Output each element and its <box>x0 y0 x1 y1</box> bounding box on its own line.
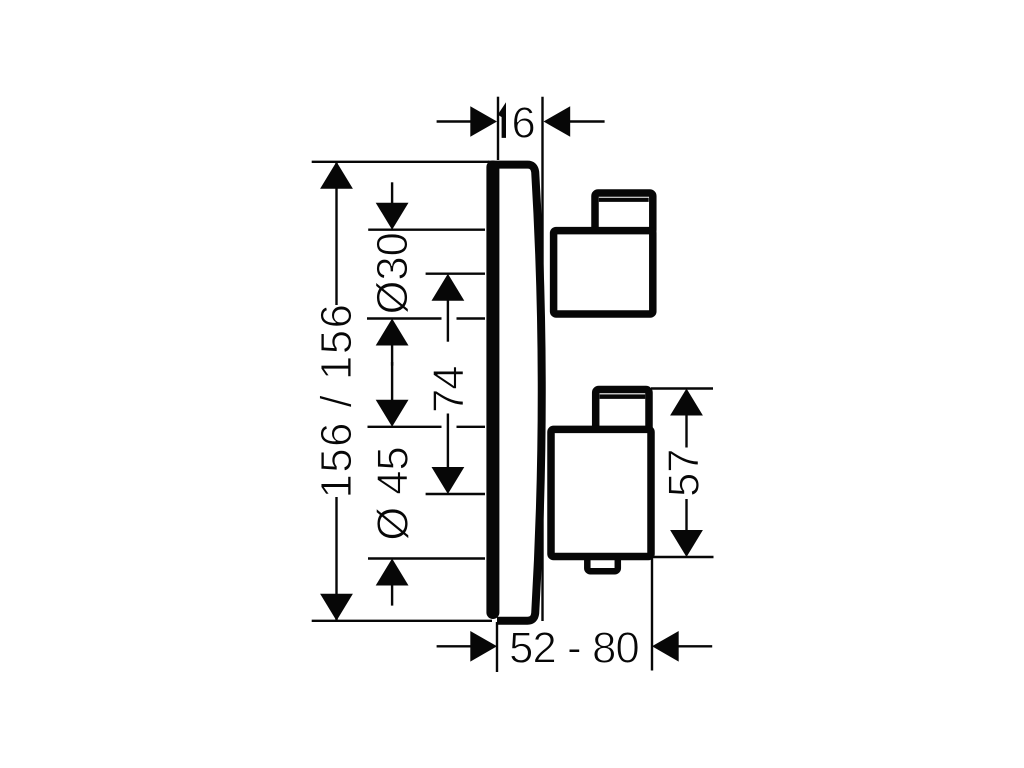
arrow 74 down <box>432 467 465 494</box>
plate face fill <box>493 165 540 621</box>
extension line 74 bottom <box>426 493 485 495</box>
dim d45 top tail <box>391 362 393 401</box>
arrow d45 down <box>376 400 409 427</box>
bottom handle cap inner line <box>600 394 646 399</box>
dim d30 bottom tail <box>391 345 393 366</box>
dim 57 lower tail <box>685 499 687 531</box>
arrow d30 up <box>376 319 409 346</box>
arrow 57 down <box>670 530 703 557</box>
bottom handle body <box>551 429 651 556</box>
dim d45 bottom tail <box>391 585 393 606</box>
extension line 74 top <box>426 273 485 275</box>
dim 52-80 right tail <box>679 645 713 647</box>
extension line d30 top <box>368 228 485 230</box>
dim 156 line upper <box>335 163 337 305</box>
bottom handle <box>551 390 651 572</box>
arrow 156 down <box>320 594 353 621</box>
svg-text:52 - 80: 52 - 80 <box>509 625 639 673</box>
arrow 74 up <box>432 274 465 301</box>
top handle cap inner line <box>599 198 649 202</box>
svg-text:74: 74 <box>426 367 474 413</box>
arrow d45 up <box>376 559 409 586</box>
arrow 16 right <box>544 106 571 137</box>
extension line 52-80 right <box>651 559 653 671</box>
svg-text:Ø30: Ø30 <box>369 232 417 314</box>
extension line 156 bottom <box>312 620 492 622</box>
extension line 16 left <box>497 97 499 160</box>
extension line d45 bottom <box>368 557 485 559</box>
plate (escutcheon side view) <box>488 165 542 621</box>
svg-text:57: 57 <box>661 449 709 497</box>
extension line 57 top <box>651 387 713 389</box>
dim 52-80 left tail <box>437 645 471 647</box>
arrow d30 down <box>376 203 409 230</box>
arrow 156 up <box>320 162 353 189</box>
dim 156 line lower <box>335 497 337 620</box>
extension line d45 top <box>368 426 442 428</box>
svg-text:Ø 45: Ø 45 <box>370 446 418 540</box>
extension line 156 top <box>312 161 489 163</box>
arrow 52-80 left-pointing <box>652 631 679 662</box>
bottom handle tab <box>587 546 618 571</box>
extension line 16 right <box>541 97 543 621</box>
top handle <box>554 193 653 314</box>
arrow 52-80 right-pointing <box>470 631 497 662</box>
plate wall edge thick bar <box>486 167 499 613</box>
dim 74 lower tail <box>447 414 449 469</box>
dim 57 upper tail <box>685 415 687 448</box>
top handle body <box>554 231 653 314</box>
top handle cap <box>595 193 653 233</box>
dim 16 right tail <box>570 120 605 122</box>
dim 74 upper tail <box>447 300 449 342</box>
arrow 16 left <box>470 106 497 137</box>
dim d30 top tail <box>391 182 393 204</box>
extension line d30 bottom <box>367 317 442 319</box>
label 16 <box>500 110 504 138</box>
dim 16 left tail <box>437 120 471 122</box>
plate outline top/right/bottom <box>488 165 542 621</box>
arrow 57 up <box>670 389 703 416</box>
svg-text:6: 6 <box>512 100 536 148</box>
extension line 57 bottom <box>651 556 714 558</box>
svg-text:156 / 156: 156 / 156 <box>313 303 361 499</box>
extension line 52-80 left <box>496 622 498 672</box>
bottom handle cap <box>596 390 649 431</box>
